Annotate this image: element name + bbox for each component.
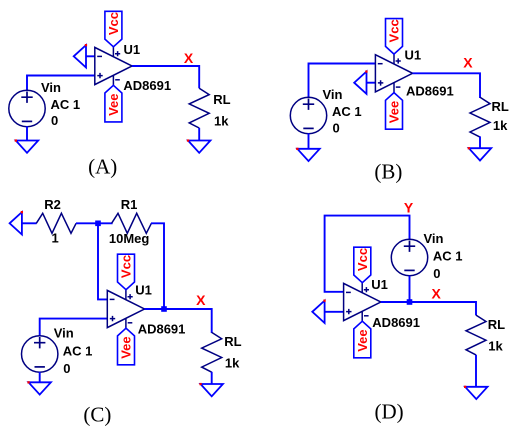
resistor R2 (C) [36, 213, 76, 233]
svg-text:AD8691: AD8691 [406, 83, 454, 98]
wire op-amp output to RL (A) [132, 66, 199, 88]
resistor RL (C) [202, 332, 222, 372]
op-amp U1 (D) [344, 283, 381, 321]
wire Vin top to op-amp - input (B) [309, 64, 376, 98]
wire Vin top to + input (C) [40, 319, 107, 336]
Vcc supply flag (C) [118, 254, 135, 290]
svg-text:AC 1: AC 1 [332, 104, 362, 119]
ground under Vin (B) [296, 148, 320, 161]
svg-text:Vin: Vin [424, 231, 444, 246]
svg-text:0: 0 [63, 361, 70, 376]
svg-text:Vcc: Vcc [387, 19, 402, 42]
svg-text:RL: RL [224, 334, 241, 349]
wire Vin bottom to output node (D) [409, 276, 411, 302]
wire R1 right to output node (C) [151, 223, 164, 309]
wire Vin bottom to ground (B) [308, 133, 310, 149]
op-amp U1 (B) [375, 54, 412, 92]
svg-text:R2: R2 [44, 197, 61, 212]
svg-text:0: 0 [51, 113, 58, 128]
Vee supply flag (D) [354, 321, 371, 358]
svg-text:1k: 1k [488, 338, 503, 353]
rotated ground at - input (A) [74, 44, 95, 68]
ground under RL (A) [187, 139, 211, 152]
svg-text:RL: RL [213, 92, 230, 107]
wire RL bottom to ground (D) [475, 355, 477, 387]
rotated ground at + input (D) [312, 300, 343, 324]
junction output node (D) [407, 299, 413, 305]
svg-text:AC 1: AC 1 [433, 249, 463, 264]
ground under RL (B) [468, 147, 492, 160]
wire op-amp output to RL (B) [413, 73, 480, 98]
Vee supply flag (A) [105, 85, 122, 122]
svg-text:(D): (D) [375, 399, 404, 423]
Vcc supply flag (D) [354, 247, 371, 283]
svg-text:RL: RL [492, 99, 509, 114]
wire feedback node to - input (C) [98, 223, 107, 299]
svg-text:AC 1: AC 1 [63, 344, 93, 359]
svg-text:AC 1: AC 1 [51, 97, 81, 112]
svg-text:RL: RL [488, 317, 505, 332]
svg-text:Vee: Vee [106, 93, 121, 115]
resistor R1 (C) [112, 213, 152, 233]
voltage source Vin (A) [9, 90, 45, 126]
rotated ground at + input (B) [354, 70, 375, 94]
svg-text:X: X [196, 292, 206, 308]
wire RL bottom to ground (A) [198, 128, 200, 141]
voltage source Vin (B) [290, 97, 326, 133]
op-amp U1 (C) [107, 290, 144, 328]
svg-text:Vin: Vin [41, 80, 61, 95]
resistor RL (B) [470, 97, 490, 137]
wire op-amp output to RL (D) [381, 302, 476, 315]
svg-text:Vee: Vee [387, 101, 402, 123]
svg-text:(C): (C) [83, 402, 111, 426]
svg-text:Vin: Vin [54, 326, 74, 341]
svg-text:Y: Y [404, 199, 414, 215]
ground under Vin (A) [15, 139, 39, 152]
ground under RL (D) [464, 386, 488, 399]
svg-text:X: X [432, 286, 442, 302]
wire RL bottom to ground (B) [479, 136, 481, 148]
svg-text:1k: 1k [225, 355, 240, 370]
svg-text:Vee: Vee [355, 329, 370, 351]
junction output node (C) [161, 306, 167, 312]
wire RL bottom to ground (C) [211, 372, 213, 384]
ground under RL (C) [199, 383, 223, 396]
svg-text:Vin: Vin [323, 87, 343, 102]
svg-text:0: 0 [333, 121, 340, 136]
svg-text:Vcc: Vcc [106, 12, 121, 35]
svg-text:X: X [463, 55, 473, 71]
Vee supply flag (B) [386, 93, 403, 130]
svg-text:AD8691: AD8691 [372, 315, 420, 330]
ground under Vin (C) [27, 381, 51, 394]
svg-text:Vcc: Vcc [355, 248, 370, 271]
wire Vin bottom to ground (A) [26, 126, 28, 140]
svg-text:AD8691: AD8691 [123, 78, 171, 93]
svg-text:R1: R1 [121, 197, 138, 212]
svg-text:(A): (A) [88, 154, 117, 178]
svg-text:1k: 1k [214, 113, 229, 128]
svg-text:X: X [184, 50, 194, 66]
svg-text:U1: U1 [124, 42, 141, 57]
svg-text:1: 1 [52, 231, 59, 246]
svg-text:U1: U1 [371, 277, 388, 292]
wire Vin bottom to ground (C) [39, 372, 41, 382]
voltage source Vin (C) [22, 336, 58, 372]
voltage source Vin (D) [391, 239, 427, 275]
svg-text:1k: 1k [493, 118, 508, 133]
resistor RL (A) [189, 88, 209, 128]
op-amp U1 (A) [95, 47, 132, 85]
wire op-amp output to RL (C) [145, 309, 212, 333]
wire Vin top to op-amp + input (A) [27, 76, 95, 91]
svg-text:U1: U1 [405, 48, 422, 63]
svg-text:10Meg: 10Meg [109, 231, 150, 246]
resistor RL (D) [466, 315, 486, 355]
svg-text:U1: U1 [135, 283, 152, 298]
svg-text:(B): (B) [374, 159, 402, 183]
rotated ground at R2 left (C) [10, 211, 37, 235]
svg-text:Vee: Vee [119, 336, 134, 358]
wire feedback loop Y rail (D) [325, 216, 410, 292]
Vee supply flag (C) [118, 328, 135, 365]
svg-text:Vcc: Vcc [119, 255, 134, 278]
svg-text:0: 0 [433, 266, 440, 281]
Vcc supply flag (B) [386, 19, 403, 55]
junction R2/R1 node (C) [95, 221, 101, 227]
Vcc supply flag (A) [105, 11, 122, 47]
svg-text:AD8691: AD8691 [138, 322, 186, 337]
wire R2 to R1 (C) [76, 222, 113, 224]
